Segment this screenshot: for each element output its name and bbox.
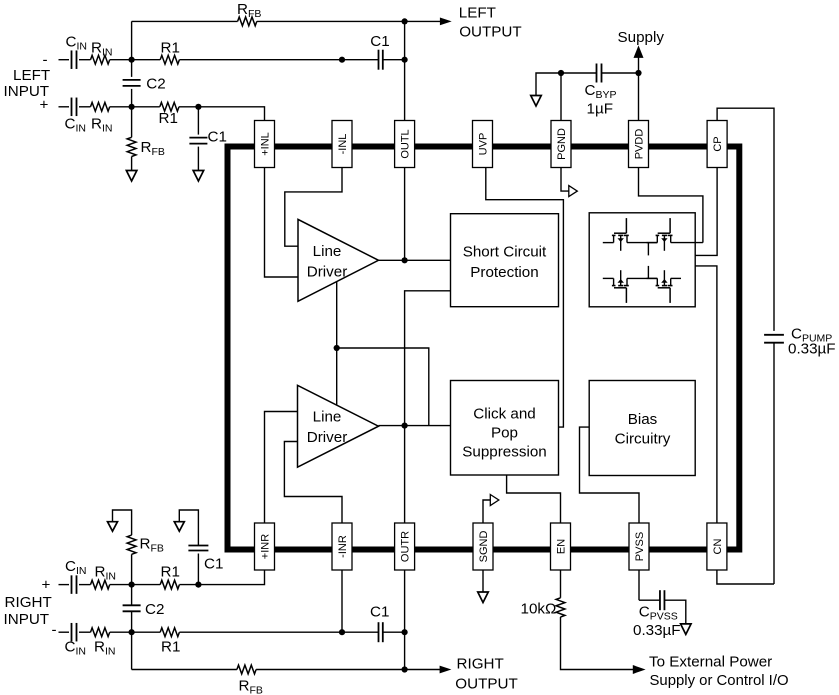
block click and pop suppression xyxy=(451,381,559,476)
wire EN to resistor xyxy=(560,570,562,598)
wire RFB bottom lead (right) xyxy=(131,554,133,584)
wire Q2 drain to PVDD entry xyxy=(671,242,703,244)
wire +INR to line driver 2 xyxy=(265,412,298,524)
arrow SGND net xyxy=(490,495,499,506)
capacitor CIN (row A) xyxy=(71,50,73,68)
arrow PGND net xyxy=(569,186,578,197)
node row D -INR junction xyxy=(339,629,345,635)
node row C junction xyxy=(129,582,135,588)
capacitor CIN (row D) xyxy=(71,623,73,642)
svg-text:CP: CP xyxy=(712,136,724,151)
svg-text:+INL: +INL xyxy=(260,132,272,156)
wire row B RIN to junction xyxy=(110,106,160,108)
svg-text:R1: R1 xyxy=(159,110,178,127)
wire PVDD internal to switch xyxy=(639,168,703,243)
svg-text:CN: CN xyxy=(712,539,724,555)
wire SCP sense xyxy=(405,291,451,426)
svg-text:UVP: UVP xyxy=(478,133,490,156)
wire row A stub xyxy=(59,59,70,61)
arrow to external control xyxy=(633,665,646,674)
wire C2 bottom bottom lead xyxy=(131,611,133,632)
svg-text:Bias: Bias xyxy=(628,411,658,428)
wire bottom feedback row right segment xyxy=(256,669,440,671)
capacitor CBYP xyxy=(596,64,598,83)
wire bypass to ground xyxy=(536,73,561,96)
svg-text:PVSS: PVSS xyxy=(634,532,646,561)
wire PVSS to CPVSS xyxy=(638,570,640,600)
svg-text:RIGHT: RIGHT xyxy=(457,656,504,673)
svg-text:-: - xyxy=(52,621,57,638)
svg-text:-INR: -INR xyxy=(337,535,349,558)
node row A OUTL junction xyxy=(402,57,408,63)
resistor RFB (top feedback) xyxy=(238,17,257,26)
wire row B stub xyxy=(59,106,70,108)
wire OUTR vertical xyxy=(404,426,406,523)
svg-text:PVDD: PVDD xyxy=(634,129,646,160)
pin OUTL xyxy=(395,121,415,168)
node bias junction xyxy=(334,345,340,351)
svg-text:Line: Line xyxy=(313,409,342,426)
pin OUTR xyxy=(395,523,415,570)
svg-text:R1: R1 xyxy=(161,39,180,56)
svg-text:To External Power: To External Power xyxy=(649,654,772,671)
wire bottom feedback row left segment xyxy=(132,669,237,671)
node PVDD bypass junction xyxy=(635,70,641,76)
pin +INL xyxy=(255,121,275,168)
svg-text:Line: Line xyxy=(313,243,342,260)
wire row D RIN to junction xyxy=(110,631,161,633)
svg-text:Driver: Driver xyxy=(307,429,348,446)
svg-text:Click and: Click and xyxy=(473,406,535,423)
block short circuit protection xyxy=(451,214,559,307)
ground above C1 (right) xyxy=(174,522,184,532)
capacitor C1 shunt (right) xyxy=(188,545,208,547)
capacitor CPUMP xyxy=(764,334,784,336)
resistor RFB (bottom feedback) xyxy=(237,665,256,674)
wire driver2 output xyxy=(379,425,451,427)
wire CP pin to right rail xyxy=(717,108,774,331)
svg-text:R1: R1 xyxy=(161,563,180,580)
svg-text:Circuitry: Circuitry xyxy=(615,431,671,448)
svg-text:+INR: +INR xyxy=(260,534,272,559)
svg-text:EN: EN xyxy=(556,539,568,554)
svg-text:C1: C1 xyxy=(204,555,223,572)
svg-text:C2: C2 xyxy=(146,76,165,93)
pin CP xyxy=(707,121,727,168)
svg-text:Supply: Supply xyxy=(618,29,665,46)
pin -INR xyxy=(332,523,352,570)
pin SGND xyxy=(473,523,493,570)
wire click-pop to EN xyxy=(507,475,561,523)
svg-text:OUTPUT: OUTPUT xyxy=(455,676,517,693)
svg-text:+: + xyxy=(40,96,49,113)
wire row A to RIN xyxy=(79,59,91,61)
svg-text:Pop: Pop xyxy=(491,425,518,442)
svg-text:Short Circuit: Short Circuit xyxy=(463,244,547,261)
wire C2 bottom lead xyxy=(131,89,133,107)
svg-text:C1: C1 xyxy=(370,33,389,50)
resistor RIN (row A) xyxy=(91,55,110,64)
node right output junction xyxy=(402,666,408,672)
wire C1 bottom lead (right) xyxy=(197,554,199,585)
wire row C R1 to C1 node xyxy=(179,584,198,586)
wire -INL to line driver 1 xyxy=(285,168,342,247)
capacitor C2 (right) xyxy=(123,604,141,606)
wire row A C1 to OUTL xyxy=(383,59,404,61)
wire Q4 drain stub xyxy=(671,277,681,279)
svg-text:OUTR: OUTR xyxy=(400,531,412,562)
capacitor CIN (row B) xyxy=(71,98,73,117)
ground below SGND xyxy=(478,592,489,603)
node PGND bypass junction xyxy=(558,70,564,76)
node driver1 output junction xyxy=(402,257,408,263)
node row C C1 junction xyxy=(195,582,201,588)
resistor RFB shunt (right) xyxy=(127,535,136,554)
wire -INR pin drop xyxy=(341,570,343,632)
wire row D stub xyxy=(59,631,70,633)
wire C1 bottom lead (left) xyxy=(197,147,199,171)
resistor R1 (row A) xyxy=(160,55,179,64)
IC body outline (thick border) xyxy=(228,147,740,550)
wire row C to +INR pin xyxy=(198,570,264,585)
node row B C1 junction xyxy=(195,104,201,110)
capacitor C1 (row A) xyxy=(378,50,380,70)
wire PGND pin riser xyxy=(560,73,562,121)
wire switch to CN internal xyxy=(648,266,717,523)
wire C2 bottom top lead xyxy=(131,585,133,606)
pin -INL xyxy=(332,121,352,168)
wire row D to RIN xyxy=(79,631,91,633)
wire feedback row right segment xyxy=(257,20,441,22)
svg-text:INPUT: INPUT xyxy=(4,611,50,628)
svg-text:OUTPUT: OUTPUT xyxy=(459,23,521,40)
wire row A RIN to junction xyxy=(110,59,161,61)
wire CN pin bottom lead xyxy=(717,570,774,584)
svg-text:C2: C2 xyxy=(145,601,164,618)
ground below bypass xyxy=(531,96,542,107)
wire C2 top lead xyxy=(131,60,133,77)
capacitor C1 (row D) xyxy=(378,622,380,642)
wire feedback row left segment xyxy=(132,20,238,22)
pin CN xyxy=(707,523,727,570)
capacitor C1 shunt (left) xyxy=(189,137,207,139)
ground above RFB (right) xyxy=(108,522,118,532)
ground below CPVSS xyxy=(681,624,692,635)
svg-text:-: - xyxy=(43,52,48,69)
wire CP internal to switch xyxy=(648,168,717,256)
node driver2 output junction xyxy=(402,423,408,429)
wire Q3-Q4 interconnect xyxy=(627,277,657,279)
wire supply stem xyxy=(638,55,640,73)
capacitor CIN (row C) xyxy=(71,575,73,594)
wire row C to RIN xyxy=(79,584,91,586)
wire row B to RIN xyxy=(79,106,91,108)
wire CPVSS to ground xyxy=(665,600,686,624)
resistor RFB shunt (left) xyxy=(127,137,136,156)
wire row B to +INL pin xyxy=(198,107,264,121)
op-amp line driver 2 xyxy=(298,385,379,467)
wire row C RIN to junction xyxy=(110,584,161,586)
pin +INR xyxy=(255,523,275,570)
resistor RIN (row D) xyxy=(91,628,110,637)
node row A junction xyxy=(129,57,135,63)
wire bypass left segment xyxy=(561,72,597,74)
wire bias branch xyxy=(337,348,429,426)
transistor Q2 (top-right) xyxy=(669,218,671,233)
ground below RFB (left) xyxy=(126,171,137,182)
wire SGND internal xyxy=(483,500,490,523)
wire left-input minus row riser to feedback row xyxy=(131,21,133,59)
transistor Q3 (bottom-left) xyxy=(625,288,627,303)
wire row D to C1 xyxy=(342,631,378,633)
wire row C stub xyxy=(59,584,70,586)
node row D OUTR junction xyxy=(402,629,408,635)
svg-text:LEFT: LEFT xyxy=(13,67,50,84)
arrow to RIGHT OUTPUT xyxy=(440,666,452,674)
wire UVP to click-pop xyxy=(486,168,564,428)
wire row D R1 to -INR column xyxy=(179,631,342,633)
pin PVDD xyxy=(629,121,649,168)
svg-text:Suppression: Suppression xyxy=(462,444,546,461)
wire bias to PVSS xyxy=(580,427,640,523)
wire +INL to line driver 1 xyxy=(265,168,299,278)
svg-text:-INL: -INL xyxy=(337,134,349,155)
node row B junction xyxy=(129,104,135,110)
svg-text:Driver: Driver xyxy=(307,264,348,281)
block charge pump switches xyxy=(589,213,695,307)
resistor 10k xyxy=(556,598,565,617)
wire OUTL vertical xyxy=(404,21,406,120)
wire C1 top lead (left) xyxy=(197,107,199,135)
resistor R1 (row B) xyxy=(160,102,179,111)
svg-text:10kΩ: 10kΩ xyxy=(521,601,557,618)
wire EN resistor to control xyxy=(561,617,634,670)
pin PVSS xyxy=(629,523,649,570)
svg-text:Supply or Control I/O: Supply or Control I/O xyxy=(650,673,789,689)
pin UVP xyxy=(473,121,493,168)
wire C1 top lead (right) xyxy=(179,510,198,546)
transistor Q4 (bottom-right) xyxy=(669,288,671,303)
node row A -INL junction xyxy=(339,57,345,63)
capacitor C2 (left) xyxy=(123,79,141,81)
arrow Supply up xyxy=(634,45,644,58)
pin EN xyxy=(551,523,571,570)
capacitor CPVSS xyxy=(659,590,661,610)
wire row D C1 to OUTR xyxy=(383,631,404,633)
svg-text:LEFT: LEFT xyxy=(459,5,496,22)
svg-text:SGND: SGND xyxy=(478,531,490,563)
wire right-input minus row riser to feedback row xyxy=(131,632,133,669)
wire RFB top lead (right) xyxy=(113,510,132,535)
svg-text:OUTL: OUTL xyxy=(400,129,412,158)
wire RFB top lead (left) xyxy=(131,107,133,138)
svg-text:R1: R1 xyxy=(161,639,180,656)
node left output junction xyxy=(402,18,408,24)
wire OUTR external vertical xyxy=(404,570,406,670)
wire driver1 output xyxy=(379,259,451,261)
resistor R1 (row C) xyxy=(160,580,179,589)
svg-text:1µF: 1µF xyxy=(587,101,613,118)
wire -INR to line driver 2 xyxy=(284,442,342,524)
op-amp line driver 1 xyxy=(298,219,379,301)
svg-text:C1: C1 xyxy=(370,604,389,621)
arrow to LEFT OUTPUT xyxy=(440,18,452,26)
wire driver bias vertical xyxy=(336,281,338,405)
svg-text:0.33µF: 0.33µF xyxy=(788,341,836,358)
pin PGND xyxy=(551,121,571,168)
ground below C1 (left) xyxy=(193,171,204,182)
svg-text:C1: C1 xyxy=(208,128,227,145)
resistor RIN (row B) xyxy=(91,102,110,111)
block bias circuitry xyxy=(589,381,695,476)
wire SGND to ground xyxy=(482,570,484,592)
resistor RIN (row C) xyxy=(91,580,110,589)
wire row B R1 to C1 node xyxy=(179,106,198,108)
wire row A R1 to -INL column xyxy=(179,59,342,61)
svg-text:+: + xyxy=(42,577,51,594)
svg-text:0.33µF: 0.33µF xyxy=(633,622,681,639)
resistor R1 (row D) xyxy=(160,628,179,637)
wire CPUMP to CN rail xyxy=(773,343,775,584)
wire row A to C1 xyxy=(342,59,378,61)
svg-text:RIGHT: RIGHT xyxy=(5,594,52,611)
svg-text:PGND: PGND xyxy=(556,128,568,160)
wire Q1-Q2 interconnect xyxy=(627,242,657,244)
transistor Q1 (top-left) xyxy=(625,218,627,233)
wire PGND internal xyxy=(561,168,569,192)
node row D junction xyxy=(129,629,135,635)
wire PVDD pin riser xyxy=(638,73,640,121)
wire bypass right segment xyxy=(602,72,639,74)
wire RFB bottom lead (left) xyxy=(131,157,133,171)
svg-text:Protection: Protection xyxy=(470,264,538,281)
